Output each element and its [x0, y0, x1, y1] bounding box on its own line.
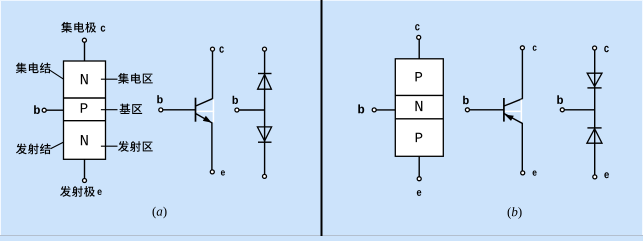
terminal b of Q2	[465, 108, 469, 112]
label c (b diode model)	[604, 46, 609, 52]
label e (structure bottom)	[97, 190, 101, 195]
terminal e of structure	[83, 179, 87, 183]
wire: base branch (b diode model)	[564, 109, 594, 111]
terminal c of Q1	[211, 47, 215, 51]
caption (b)	[508, 207, 522, 219]
junction line: base N / emitter P	[395, 118, 443, 120]
leader line to emitter junction	[51, 142, 64, 149]
region label N (emitter)	[81, 135, 88, 145]
diode model (a): bottom terminal	[263, 174, 267, 178]
terminal b of PNP structure	[372, 108, 376, 112]
label b (b diode model)	[557, 95, 563, 104]
junction line: base P / emitter N	[64, 120, 106, 122]
diode D2 triangle (apex down)	[257, 127, 271, 141]
Q1 emitter diagonal	[196, 114, 212, 123]
diode D4 cathode bar	[587, 127, 601, 129]
terminal c of structure	[82, 38, 86, 42]
wire: collector lead of PNP structure	[418, 40, 420, 59]
white gap horizontal (Q2)	[505, 111, 521, 113]
page edge highlight left	[0, 0, 1, 236]
Q2 emitter arrowhead (points toward base)	[505, 115, 514, 121]
terminal c of Q2	[520, 46, 524, 50]
label 集电结 (collector junction)	[16, 63, 51, 74]
terminal e of PNP structure	[417, 177, 421, 181]
junction line: collector P / base N	[395, 94, 443, 96]
label b (Q1)	[157, 95, 162, 103]
label e (Q1)	[221, 170, 225, 175]
transistor Q2 (PNP): collector wire	[521, 50, 523, 99]
label 集电极 (collector electrode)	[61, 22, 96, 33]
wire: base lead of Q1	[163, 109, 196, 111]
diode model (a): main wire c-to-e	[264, 51, 266, 174]
Q1 collector diagonal	[196, 99, 212, 106]
diode model (a): top terminal	[263, 47, 267, 51]
region label N (base)	[415, 101, 422, 111]
label c (Q1)	[219, 46, 223, 52]
Q2 emitter diagonal	[504, 114, 522, 124]
white gap horizontal (Q1)	[196, 111, 214, 113]
region label P (collector)	[415, 72, 422, 81]
diode D2 cathode bar	[258, 141, 272, 143]
region label P (emitter)	[416, 133, 423, 142]
wire: collector lead of structure	[84, 43, 86, 62]
label 集电区 (collector region)	[118, 73, 153, 84]
label 发射结 (emitter junction)	[16, 143, 51, 154]
page edge highlight top	[0, 0, 643, 1]
terminal e of Q2	[521, 171, 525, 175]
page edge highlight right	[642, 0, 643, 236]
label c (structure top)	[101, 26, 106, 32]
label b (structure base)	[34, 105, 40, 114]
label e (Q2)	[533, 170, 537, 175]
terminal b (b diode model)	[560, 108, 564, 112]
leader line to 发射区	[101, 145, 118, 147]
Q1 base bar	[195, 98, 197, 122]
transistor Q1 (NPN): collector wire	[212, 51, 214, 99]
label 发射极 (emitter electrode)	[60, 186, 95, 197]
region label N (collector)	[81, 74, 88, 84]
label e (PNP structure)	[417, 190, 421, 196]
diode D1 cathode bar	[258, 73, 272, 75]
label c (Q2)	[533, 46, 537, 51]
leader line to collector junction	[50, 70, 64, 79]
label 基区 (base region)	[120, 104, 143, 114]
terminal e of Q1	[210, 170, 214, 174]
Q2 base bar	[503, 98, 505, 122]
white gap vertical (Q1)	[213, 100, 215, 123]
leader line to 集电区	[101, 78, 118, 80]
wire: base lead of structure	[46, 109, 63, 111]
Q1 emitter arrowhead	[203, 116, 212, 123]
label e (b diode model)	[604, 172, 609, 178]
wire: base branch (a diode model)	[239, 109, 265, 111]
label c (PNP structure)	[415, 24, 419, 30]
wire: emitter lead of Q2	[521, 123, 523, 171]
panel divider line	[321, 0, 323, 236]
diode model (b): top terminal	[593, 46, 597, 50]
wire: emitter lead of PNP structure	[418, 156, 420, 176]
wire: emitter lead of Q1	[211, 122, 213, 170]
diode D3 cathode bar	[587, 87, 601, 89]
terminal c of PNP structure	[417, 35, 421, 39]
junction line: collector N / base P	[64, 97, 106, 99]
wire: emitter lead of structure	[84, 159, 86, 178]
diode D4 triangle (apex up)	[587, 129, 602, 144]
wire: base lead of PNP structure	[376, 109, 395, 111]
white gap vertical (Q2)	[521, 100, 523, 122]
page edge shadow bottom	[0, 235, 643, 236]
terminal b of Q1	[159, 108, 163, 112]
terminal b of structure	[42, 108, 46, 112]
PNP structure box outline	[395, 59, 443, 157]
label b (a diode model)	[233, 96, 238, 104]
leader line to 基区	[101, 109, 118, 111]
NPN structure box outline	[64, 61, 106, 159]
caption (a)	[153, 207, 167, 219]
diode model (b): bottom terminal	[593, 175, 597, 179]
label b (PNP structure)	[358, 104, 364, 113]
diode D1 triangle (apex up)	[258, 74, 272, 89]
terminal b (a diode model)	[235, 108, 239, 112]
label 发射区 (emitter region)	[118, 141, 153, 152]
diode model (b): main wire c-to-e	[594, 50, 596, 175]
diode D3 triangle (apex down)	[587, 73, 602, 86]
label b (Q2)	[463, 96, 469, 105]
wire: base lead of Q2	[470, 109, 504, 111]
Q2 collector diagonal	[504, 99, 522, 106]
region label P (base)	[81, 103, 88, 112]
